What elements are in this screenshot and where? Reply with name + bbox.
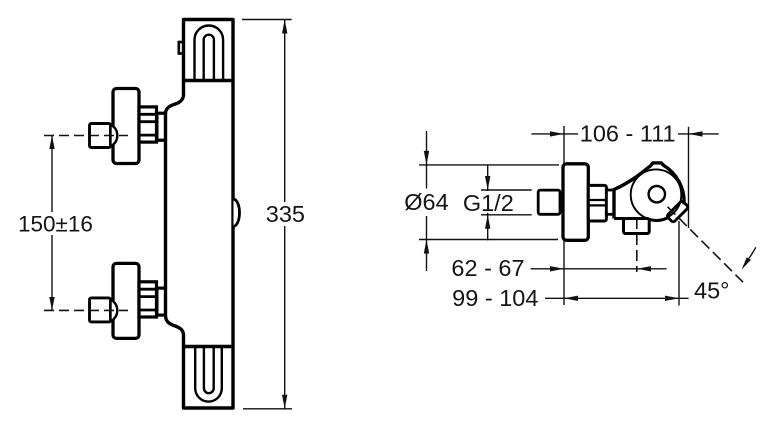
- dimension 62-67 line: [531, 268, 667, 270]
- neck ring: [606, 190, 614, 214]
- top eccentric union: [139, 107, 157, 142]
- knob hub small circle: [649, 186, 665, 202]
- bottom handle separation line: [184, 345, 234, 348]
- arrow right inside at hose plane (99-104): [665, 296, 679, 301]
- svg-text:62 - 67: 62 - 67: [451, 255, 524, 281]
- valve housing contour: [614, 163, 684, 219]
- arrow down at Ø64 top: [424, 151, 429, 165]
- top handle separation line: [184, 79, 234, 82]
- arrow left at shower tip plane (106-111): [689, 131, 703, 136]
- dimension 335 vertical line: [284, 20, 286, 409]
- arrow left inside at wall plane (99-104): [564, 296, 578, 301]
- hose outlet below body: [624, 219, 650, 234]
- arrow down at 150±16 bottom: [49, 297, 54, 310]
- top inlet boss: [157, 113, 166, 140]
- bottom eccentric union: [139, 282, 157, 317]
- shower nozzle at 45°: [666, 200, 688, 222]
- 45° leader arrowhead: [742, 257, 751, 270]
- handle side tab: [179, 42, 185, 54]
- top boss front edges (redrawn over body): [157, 113, 167, 140]
- wall plane extension line: [563, 126, 565, 305]
- top handle lever inner contour: [204, 35, 214, 80]
- dimension 335 bottom extension line: [243, 408, 292, 410]
- extension line at shower nozzle tip: [688, 127, 690, 228]
- bottom wall escutcheon (front view): [113, 263, 139, 338]
- label Ø64: [403, 189, 450, 217]
- bottom union nut cone: [111, 299, 118, 321]
- Ø64 top extension line: [419, 164, 559, 166]
- top union nut cone: [111, 125, 118, 147]
- outlet axis (dash-dot vertical): [636, 218, 638, 272]
- bottom supply centerline (dashed): [44, 309, 128, 311]
- bottom handle lever inner contour: [204, 347, 214, 393]
- svg-text:45°: 45°: [694, 277, 730, 303]
- arrow up at 335 top: [282, 20, 287, 34]
- dimension 150±16 vertical line: [51, 136, 53, 311]
- arrow up at Ø64 bottom: [424, 240, 429, 254]
- dimension 99-104 line: [545, 297, 689, 299]
- svg-text:G1/2: G1/2: [463, 190, 514, 216]
- wall escutcheon (side view): [563, 164, 588, 241]
- diverter bump on right body edge: [234, 199, 240, 226]
- arrow up at 150±16 top: [49, 136, 54, 150]
- label 150±16: [14, 212, 92, 235]
- svg-text:335: 335: [266, 201, 305, 227]
- arrow right at wall plane (62-67): [550, 266, 564, 271]
- label 335: [262, 202, 308, 226]
- extension line at hose connection plane: [678, 221, 680, 306]
- G1/2 bottom extension line: [481, 214, 532, 216]
- mixer body outline: [166, 20, 234, 409]
- bottom boss front edges (redrawn over body): [157, 288, 167, 315]
- bottom inlet boss: [157, 288, 166, 315]
- top union ridge lines: [139, 114, 157, 135]
- nozzle axis at 45° (dashed): [668, 207, 743, 282]
- temperature knob circle (side view): [631, 169, 682, 220]
- top union nut: [90, 124, 111, 148]
- 45° angle leader arc: [749, 247, 756, 258]
- bottom arc of knob between outlet and nozzle: [649, 217, 668, 220]
- G1/2 dimension line: [487, 165, 489, 240]
- nut facet lines: [588, 200, 606, 205]
- bottom union nut: [90, 298, 111, 322]
- arrow down at 335 bottom: [282, 395, 287, 409]
- arrow down at G1/2 top: [485, 176, 490, 190]
- housing bottom edge: [614, 217, 624, 220]
- Ø64 bottom extension line: [419, 239, 558, 241]
- label 106 - 111: [578, 123, 678, 145]
- top handle lever outer contour: [195, 26, 224, 81]
- label 99 - 104: [446, 287, 541, 310]
- G1/2 supply stub (side view): [538, 190, 560, 214]
- top wall escutcheon (front view): [113, 89, 139, 164]
- svg-text:Ø64: Ø64: [404, 189, 448, 215]
- Ø64 dimension line: [426, 131, 428, 271]
- arrow left at outlet axis (62-67): [637, 266, 651, 271]
- stub tip chamfer arc: [560, 193, 564, 212]
- svg-text:99 - 104: 99 - 104: [452, 285, 538, 311]
- dimension 335 top extension line: [242, 19, 292, 21]
- connection nut (side view): [588, 185, 606, 221]
- bottom union ridge lines: [139, 289, 157, 310]
- label G1/2: [462, 191, 514, 213]
- G1/2 top extension line: [481, 189, 532, 191]
- dimension 106-111 line with tails: [531, 133, 718, 135]
- bottom handle lever outer contour: [195, 347, 222, 402]
- top supply centerline (dashed): [44, 135, 128, 137]
- arrow right at wall plane (106-111): [550, 131, 564, 136]
- svg-text:106 - 111: 106 - 111: [580, 121, 676, 147]
- svg-text:150±16: 150±16: [18, 212, 93, 237]
- arrow up at G1/2 bottom: [485, 215, 490, 229]
